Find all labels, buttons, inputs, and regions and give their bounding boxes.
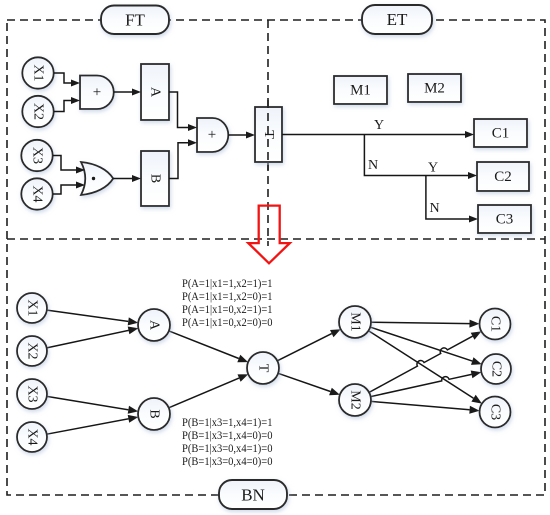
svg-text:A: A xyxy=(147,320,162,331)
OR gate G1 (+) xyxy=(80,76,114,110)
arrow B to T xyxy=(169,378,239,408)
arrow X4 to B xyxy=(47,419,129,434)
svg-text:N: N xyxy=(430,201,440,216)
block B xyxy=(141,151,169,206)
node X2 xyxy=(17,336,47,366)
node B xyxy=(138,398,170,430)
node M1 xyxy=(339,306,371,338)
node X4 xyxy=(17,422,47,452)
node A xyxy=(138,309,170,341)
svg-text:P(B=1|x3=0,x4=0)=0: P(B=1|x3=0,x4=0)=0 xyxy=(182,455,273,468)
arrow M1 to C3 xyxy=(369,331,474,399)
box M1 xyxy=(334,76,387,104)
arrow M2 to C2 xyxy=(371,374,472,396)
node M2 xyxy=(339,384,371,416)
svg-text:M1: M1 xyxy=(348,312,363,331)
svg-text:M2: M2 xyxy=(424,81,445,97)
svg-text:X4: X4 xyxy=(25,428,40,445)
svg-text:C3: C3 xyxy=(496,212,514,228)
svg-text:X4: X4 xyxy=(30,185,45,202)
arrow M1 to C1 xyxy=(371,322,470,323)
node X1 xyxy=(17,293,47,323)
wire G2 to B xyxy=(113,178,132,180)
arrow X1 to A xyxy=(47,310,128,321)
box M2 xyxy=(408,74,461,102)
svg-text:X2: X2 xyxy=(31,103,46,120)
arrow X2 to A xyxy=(47,330,129,348)
svg-text:C1: C1 xyxy=(488,316,503,332)
wire X4 to G2 xyxy=(53,185,77,194)
AND gate G2 (dot) xyxy=(81,162,113,195)
FT tag stadium xyxy=(101,6,169,35)
svg-text:BN: BN xyxy=(241,486,265,505)
node C2 xyxy=(481,354,511,384)
block A xyxy=(141,64,169,120)
wire G3 to T xyxy=(228,134,246,136)
svg-text:P(A=1|x1=0,x2=1)=1: P(A=1|x1=0,x2=1)=1 xyxy=(182,303,273,316)
node T xyxy=(247,352,279,384)
svg-text:+: + xyxy=(208,127,216,143)
red transform arrow xyxy=(248,206,289,264)
svg-text:C2: C2 xyxy=(494,169,512,185)
CPT text for node B xyxy=(182,416,273,468)
arrow A to T xyxy=(169,331,239,359)
event circle X3 xyxy=(21,140,52,171)
svg-text:P(B=1|x3=0,x4=1)=0: P(B=1|x3=0,x4=1)=0 xyxy=(182,442,273,455)
wire T to C1 xyxy=(282,134,466,136)
svg-text:N: N xyxy=(368,158,378,173)
svg-text:C2: C2 xyxy=(489,361,504,377)
arrow M1 to C2 xyxy=(370,327,472,361)
wire branch2 down to C3 xyxy=(426,176,470,220)
OR gate G3 (+) xyxy=(197,118,228,152)
svg-text:T: T xyxy=(256,364,271,373)
event circle X1 xyxy=(22,57,53,88)
svg-text:A: A xyxy=(148,87,163,98)
node X3 xyxy=(17,379,47,409)
box C2 xyxy=(477,162,529,191)
svg-text:P(A=1|x1=1,x2=0)=1: P(A=1|x1=1,x2=0)=1 xyxy=(182,290,273,303)
svg-text:Y: Y xyxy=(428,161,438,176)
dashed divider between FT and ET xyxy=(267,20,269,246)
svg-text:M2: M2 xyxy=(348,390,363,409)
block T xyxy=(255,107,282,162)
svg-text:C3: C3 xyxy=(488,404,503,420)
BN tag stadium xyxy=(219,480,287,509)
svg-text:P(B=1|x3=1,x4=0)=0: P(B=1|x3=1,x4=0)=0 xyxy=(182,429,273,442)
wire X2 to G1 xyxy=(54,101,72,112)
arrow M2 to C1 xyxy=(369,336,473,392)
svg-text:X1: X1 xyxy=(25,299,40,316)
svg-text:P(A=1|x1=1,x2=1)=1: P(A=1|x1=1,x2=1)=1 xyxy=(182,277,273,290)
svg-text:M1: M1 xyxy=(350,83,371,99)
svg-text:X2: X2 xyxy=(25,342,40,359)
wire G1 to A xyxy=(114,91,133,93)
wire A to G3 xyxy=(169,92,189,128)
node C3 xyxy=(480,397,511,428)
svg-text:B: B xyxy=(148,174,163,183)
box C3 xyxy=(478,205,531,233)
wire branch1 down xyxy=(364,135,468,176)
wire X3 to G2 xyxy=(53,156,77,171)
svg-text:B: B xyxy=(147,409,162,418)
dashed divider overlay across block T xyxy=(267,100,269,170)
wire X1 to G1 xyxy=(54,73,72,83)
svg-text:X3: X3 xyxy=(30,147,45,164)
box C1 xyxy=(474,119,527,147)
arrow M2 to C3 xyxy=(371,401,470,409)
CPT text for node A xyxy=(182,277,273,329)
event circle X2 xyxy=(22,96,53,127)
svg-text:ET: ET xyxy=(387,10,408,29)
arrow T to M2 xyxy=(278,373,330,391)
arrow X3 to B xyxy=(47,396,129,409)
svg-text:X3: X3 xyxy=(25,385,40,402)
dashed divider between FT/ET and BN xyxy=(7,238,545,240)
svg-text:+: + xyxy=(93,85,101,101)
svg-text:C1: C1 xyxy=(492,126,510,142)
arrow T to M1 xyxy=(277,334,331,361)
svg-text:Y: Y xyxy=(374,118,384,133)
ET tag stadium xyxy=(362,5,432,34)
wire B to G3 xyxy=(169,143,189,179)
svg-text:X1: X1 xyxy=(31,64,46,81)
node C1 xyxy=(480,309,511,340)
svg-text:FT: FT xyxy=(125,11,145,30)
svg-text:P(A=1|x1=0,x2=0)=0: P(A=1|x1=0,x2=0)=0 xyxy=(182,316,273,329)
svg-text:P(B=1|x3=1,x4=1)=1: P(B=1|x3=1,x4=1)=1 xyxy=(182,416,273,429)
event circle X4 xyxy=(21,178,52,209)
